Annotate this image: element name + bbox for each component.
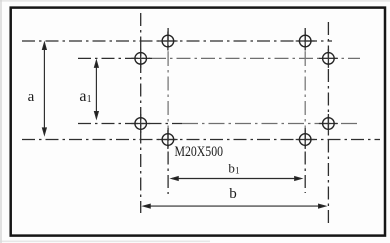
svg-text:a: a bbox=[28, 89, 35, 105]
centerline H2 middle faded part bbox=[152, 57, 360, 59]
hole bottom-left inner bbox=[162, 134, 174, 146]
centerline V1 (x=140.7) bbox=[140, 13, 142, 213]
svg-text:b1: b1 bbox=[228, 160, 239, 175]
dim a1 vertical line with arrows bbox=[95, 61, 97, 117]
centerline H3 middle faded part bbox=[182, 123, 360, 125]
hole lower-left outer bbox=[135, 118, 147, 130]
svg-text:a1: a1 bbox=[79, 88, 91, 105]
centerline V3 middle faded part bbox=[304, 52, 306, 128]
centerline V2 middle faded part bbox=[167, 52, 169, 128]
hole top-left inner bbox=[162, 35, 174, 47]
centerline V3 (x=305.2) top dark part bbox=[304, 28, 306, 52]
hole upper-left outer bbox=[135, 53, 147, 65]
hole bottom-right inner bbox=[299, 134, 311, 146]
centerline V2 bottom dark part bbox=[167, 128, 169, 194]
centerline H4 (bottom outer, y=139.5) bbox=[22, 139, 380, 141]
bolt holes bbox=[135, 35, 334, 145]
centerline H1 (top outer, y=41) bbox=[22, 40, 332, 42]
centerline V2 (x=168.1) top dark part bbox=[167, 28, 169, 52]
hole lower-right outer bbox=[323, 118, 335, 130]
dim b horizontal line with arrows bbox=[144, 205, 324, 207]
dim b1 horizontal line with arrows bbox=[172, 178, 300, 180]
centerline V3 bottom dark part bbox=[304, 128, 306, 193]
svg-text:M20X500: M20X500 bbox=[175, 144, 224, 160]
hole upper-right outer bbox=[323, 53, 335, 65]
hole top-right inner bbox=[299, 35, 311, 47]
scan edge artifacts bbox=[0, 0, 2, 243]
svg-text:b: b bbox=[229, 186, 237, 202]
solid cross ticks at each hole center bbox=[131, 32, 338, 150]
centerline V4 (x=328.4) bbox=[327, 22, 329, 226]
dim a vertical line with arrows bbox=[43, 44, 45, 135]
centerline H2 (top inner, y=58.4) left dark part bbox=[78, 57, 152, 59]
centerline H3 (bottom inner, y=123.5) left dark part bbox=[78, 123, 182, 125]
dimension lines bbox=[43, 43, 326, 208]
